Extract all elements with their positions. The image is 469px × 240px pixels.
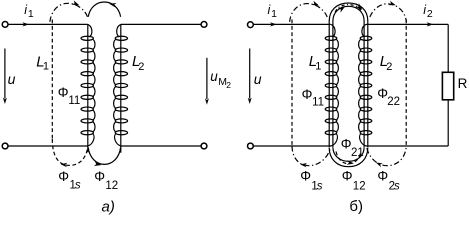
leakage flux phi1s bottom loop (dash-dot), diagram b bbox=[292, 146, 330, 166]
wire: a bottom-left, terminal to coil L1 bbox=[8, 145, 88, 147]
wire: b right vertical upper bbox=[447, 24, 449, 72]
svg-text:12: 12 bbox=[353, 181, 366, 193]
svg-text:21: 21 bbox=[351, 147, 364, 159]
svg-text:12: 12 bbox=[105, 180, 118, 192]
svg-text:а): а) bbox=[102, 199, 115, 216]
inductor L1 winding, diagram a bbox=[81, 24, 95, 146]
svg-text:u: u bbox=[254, 71, 262, 87]
svg-text:Φ: Φ bbox=[341, 136, 352, 151]
leakage flux phi2s top arc (dash-dot), diagram b bbox=[370, 4, 407, 22]
svg-text:Φ: Φ bbox=[94, 169, 105, 184]
mutual flux phi12 mid path bottom (dashed), diagram b bbox=[336, 152, 361, 164]
mutual flux phi12 bottom loop, diagram a bbox=[88, 148, 120, 165]
leakage flux phi1s bottom loop (dashed), diagram a bbox=[52, 139, 87, 165]
arrow on phi1s top arc, diagram b bbox=[312, 1, 319, 6]
wire: b top-right, coil L2 to resistor bbox=[366, 23, 448, 25]
wire: b right vertical lower bbox=[447, 100, 449, 146]
current arrow i2 on wire, diagram b bbox=[427, 22, 434, 26]
mutual flux mid path top (dash-dot), diagram b bbox=[335, 5, 362, 12]
svg-text:u: u bbox=[210, 69, 218, 84]
svg-text:2: 2 bbox=[386, 61, 392, 73]
current arrow i1 on wire, diagram b bbox=[270, 22, 277, 26]
svg-text:1: 1 bbox=[315, 61, 321, 73]
svg-text:2: 2 bbox=[427, 8, 433, 20]
flux boundary dashed line phi22, diagram b bbox=[405, 20, 407, 147]
svg-text:2: 2 bbox=[138, 61, 144, 73]
svg-text:Φ: Φ bbox=[300, 168, 311, 183]
arrow on phi12 bottom loop, diagram a bbox=[94, 162, 101, 167]
svg-text:11: 11 bbox=[312, 96, 324, 108]
leakage flux phi1s top arc (dash-dot), diagram b bbox=[290, 4, 328, 22]
arrow on phi1s bottom loop, diagram b bbox=[300, 163, 307, 167]
arrow on phi12 bottom path, diagram b bbox=[347, 160, 354, 165]
mutual flux phi21 tube inner boundary (solid), diagram b bbox=[333, 6, 364, 21]
svg-text:s: s bbox=[317, 181, 323, 193]
svg-text:22: 22 bbox=[387, 96, 400, 108]
voltage arrow uM2 shaft, diagram a bbox=[206, 58, 208, 99]
wire: a top-right, coil L2 to terminal bbox=[121, 23, 201, 25]
svg-text:1: 1 bbox=[28, 8, 34, 20]
resistor R, diagram b bbox=[442, 72, 453, 100]
svg-text:R: R bbox=[458, 76, 468, 91]
terminal circle, diagram b, top-left bbox=[248, 22, 254, 28]
voltage arrow u shaft, diagram b bbox=[249, 49, 251, 99]
inductor L2 winding, diagram b bbox=[359, 21, 372, 148]
terminal circle, diagram b, bottom-left bbox=[248, 143, 254, 149]
arrow on phi2s bottom loop, diagram b bbox=[376, 163, 383, 168]
wire: a bottom-right, coil L2 to terminal bbox=[121, 145, 201, 147]
svg-text:s: s bbox=[75, 180, 81, 192]
svg-text:Φ: Φ bbox=[342, 168, 353, 183]
svg-text:1: 1 bbox=[271, 8, 277, 20]
terminal circle, diagram a, top-right bbox=[201, 22, 207, 28]
arrow on phi1s top arc, diagram a bbox=[72, 0, 79, 5]
flux boundary dashed line (phi11 path), diagram a bbox=[51, 20, 53, 140]
wire: a top-left, terminal to coil L1 bbox=[8, 23, 88, 25]
svg-text:2: 2 bbox=[226, 80, 231, 90]
wire: b bottom-right bbox=[366, 145, 448, 147]
svg-text:Φ: Φ bbox=[377, 168, 388, 183]
svg-text:б): б) bbox=[349, 198, 363, 215]
arrow on phi12 top arc, diagram a bbox=[109, 3, 116, 8]
svg-text:Φ: Φ bbox=[58, 85, 69, 100]
leakage flux phi1s top arc (dash-dot), diagram a bbox=[50, 3, 88, 22]
inductor L1 winding, diagram b bbox=[325, 21, 338, 148]
voltage arrow u shaft, diagram a bbox=[4, 49, 6, 99]
terminal circle, diagram a, bottom-right bbox=[201, 143, 207, 149]
svg-text:Φ: Φ bbox=[302, 87, 313, 102]
arrow on mutual flux top (left), diagram b bbox=[338, 7, 345, 13]
inductor L2 winding, diagram a bbox=[114, 24, 128, 146]
wire: b top-left, terminal to coil L1 bbox=[253, 23, 330, 25]
arrow on mutual flux top (right), diagram b bbox=[356, 3, 363, 10]
svg-text:s: s bbox=[394, 181, 400, 193]
svg-text:u: u bbox=[8, 71, 16, 87]
flux curve end stub below wire at L1 bottom, diagram a bbox=[87, 146, 89, 152]
svg-text:1: 1 bbox=[43, 61, 49, 73]
current arrow i1 on wire, diagram a bbox=[22, 22, 29, 26]
svg-text:11: 11 bbox=[68, 95, 80, 107]
arrow on phi1s bottom loop, diagram a bbox=[61, 163, 68, 167]
svg-text:Φ: Φ bbox=[58, 169, 69, 184]
flux curve end stub below wire at L2 bottom, diagram a bbox=[120, 146, 122, 153]
leakage flux phi2s bottom loop (dash-dot), diagram b bbox=[367, 146, 406, 166]
wire: b bottom-left bbox=[253, 145, 331, 147]
terminal circle, diagram a, bottom-left bbox=[2, 143, 8, 149]
mutual flux phi21 tube outer boundary (solid), diagram b bbox=[329, 3, 368, 21]
mutual flux phi12 top arc, diagram a bbox=[88, 2, 120, 17]
terminal circle, diagram a, top-left bbox=[2, 22, 8, 28]
arrow on phi2s top arc, diagram b bbox=[388, 1, 395, 6]
flux boundary dashed line phi11, diagram b bbox=[291, 20, 293, 147]
